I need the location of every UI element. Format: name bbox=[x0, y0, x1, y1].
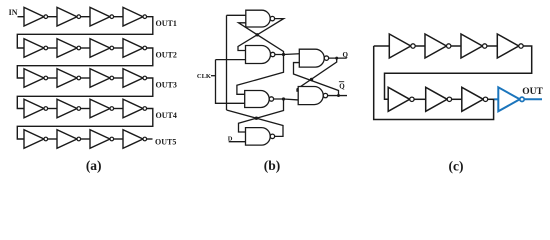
svg-text:(c): (c) bbox=[449, 159, 464, 174]
svg-text:OUT4: OUT4 bbox=[156, 111, 177, 120]
svg-text:Q: Q bbox=[343, 51, 349, 59]
svg-text:(a): (a) bbox=[86, 158, 102, 173]
svg-text:OUT5: OUT5 bbox=[155, 138, 176, 147]
svg-text:D: D bbox=[228, 135, 233, 142]
svg-text:OUT3: OUT3 bbox=[156, 81, 177, 90]
svg-text:CLK: CLK bbox=[197, 73, 211, 80]
svg-text:Q: Q bbox=[339, 82, 345, 90]
svg-text:OUT: OUT bbox=[522, 87, 543, 97]
svg-text:(b): (b) bbox=[264, 158, 281, 173]
svg-text:OUT2: OUT2 bbox=[156, 51, 177, 60]
svg-text:OUT1: OUT1 bbox=[156, 19, 177, 28]
svg-text:IN: IN bbox=[9, 8, 18, 17]
